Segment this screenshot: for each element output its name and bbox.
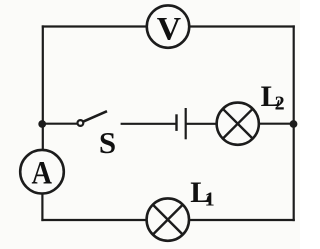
voltmeter V [147, 5, 189, 47]
lamp L1 [147, 176, 215, 241]
node junction left [38, 120, 46, 128]
svg-text:V: V [157, 11, 181, 48]
wire middle branch from left junction to switch pivot [42, 123, 77, 125]
lamp L2 [217, 80, 285, 145]
wire left vertical lower [41, 194, 43, 221]
svg-text:2: 2 [275, 92, 285, 114]
svg-text:1: 1 [205, 189, 215, 211]
wire top-right segment [190, 25, 295, 27]
wire right vertical [293, 25, 295, 221]
wire left vertical upper [42, 25, 44, 150]
switch S [78, 111, 117, 160]
wire battery to lamp L2 [186, 123, 217, 125]
wire switch fixed contact to battery [121, 123, 177, 125]
svg-text:A: A [32, 155, 52, 191]
wire bottom-left segment [41, 219, 147, 221]
wire lamp L2 to right junction [259, 123, 294, 125]
node junction right [290, 120, 298, 128]
ammeter A [20, 150, 64, 194]
svg-text:S: S [99, 125, 116, 160]
battery B1 [177, 108, 186, 139]
wire bottom-right segment [189, 219, 295, 221]
wire top-left segment [42, 25, 147, 27]
